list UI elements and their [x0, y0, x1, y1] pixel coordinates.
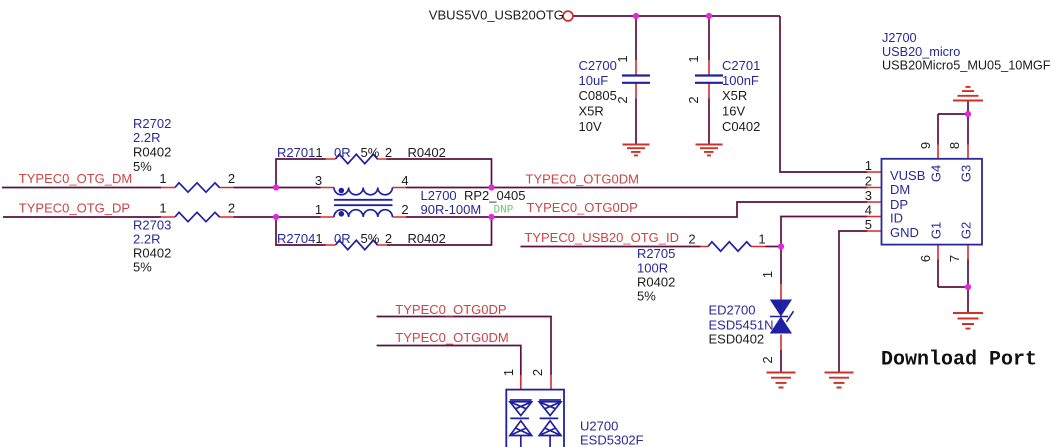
pin stubs U2700: [521, 375, 551, 390]
svg-text:0R: 0R: [334, 145, 351, 160]
svg-text:3: 3: [315, 173, 322, 188]
svg-text:TYPEC0_OTG_DM: TYPEC0_OTG_DM: [19, 171, 132, 186]
svg-text:5%: 5%: [637, 289, 656, 304]
resistor R2701: [336, 154, 378, 163]
pin stubs ED2700: [780, 284, 782, 350]
svg-text:1: 1: [159, 171, 166, 186]
wire J2700 pin6 down: [937, 260, 939, 288]
svg-text:2: 2: [530, 369, 545, 376]
J2700 pin names: [890, 168, 925, 240]
svg-text:R2702: R2702: [133, 116, 171, 131]
wire R2701 loop right: [387, 159, 492, 188]
label L2700: [421, 188, 526, 217]
power port circle VBUS5V0_USB20OTG: [563, 11, 573, 21]
wire C2701 bottom: [708, 99, 710, 145]
connector J2700 box: [882, 159, 983, 245]
junction J2700 top: [965, 111, 971, 117]
J2700 pin numbers: [865, 142, 962, 262]
junction DP right: [488, 214, 494, 220]
label R2701: [277, 145, 446, 160]
svg-text:R0402: R0402: [133, 246, 171, 261]
label J2700: [882, 31, 1051, 73]
svg-text:2: 2: [401, 202, 408, 217]
svg-text:VBUS5V0_USB20OTG: VBUS5V0_USB20OTG: [429, 8, 564, 23]
svg-text:90R-100M: 90R-100M: [421, 202, 482, 217]
wire GND pin5: [839, 231, 868, 373]
svg-text:X5R: X5R: [722, 88, 747, 103]
junction VBUS/C2700: [633, 13, 639, 19]
label R2702: [133, 116, 235, 186]
ground GND pin5: [825, 373, 854, 388]
svg-text:U2700: U2700: [580, 419, 618, 434]
wire ED2700 to ground: [780, 350, 782, 373]
svg-text:1: 1: [501, 369, 516, 376]
svg-text:2: 2: [760, 356, 775, 363]
pin stubs L2700 bottom: [321, 216, 407, 218]
ground C2701: [696, 145, 723, 156]
U2700 channel 1 diodes: [510, 400, 532, 447]
label L2700 pins: [315, 173, 409, 217]
svg-text:1: 1: [615, 55, 630, 62]
svg-text:1: 1: [315, 231, 322, 246]
svg-text:G1: G1: [929, 222, 944, 239]
wire bottom tie: [938, 286, 968, 288]
junction ID/ED2700: [778, 243, 784, 249]
wire bottom ground stem: [967, 287, 969, 313]
svg-text:RP2_0405: RP2_0405: [464, 188, 525, 203]
svg-text:8: 8: [947, 142, 962, 149]
svg-text:X5R: X5R: [579, 104, 604, 119]
svg-text:1: 1: [315, 145, 322, 160]
pin stubs J2700 top pins 9,8: [938, 145, 968, 159]
pin stubs R2702: [161, 187, 234, 189]
inductor L2700 top winding: [334, 188, 392, 195]
resistor R2705: [708, 242, 751, 251]
svg-text:2: 2: [385, 231, 392, 246]
inductor L2700 top dot: [339, 188, 345, 194]
capacitor C2701 plates: [695, 76, 723, 83]
label C2700: [579, 55, 630, 134]
junction DM left: [273, 184, 279, 190]
wire junction to ED2700: [780, 247, 782, 285]
svg-text:10V: 10V: [579, 119, 602, 134]
svg-text:R0402: R0402: [408, 231, 446, 246]
svg-text:2: 2: [228, 171, 235, 186]
wire C2701 top: [708, 16, 710, 60]
svg-text:C0805: C0805: [579, 88, 617, 103]
svg-text:TYPEC0_OTG0DP: TYPEC0_OTG0DP: [395, 302, 506, 317]
wire TYPEC0_OTG0DM to U2700 pin1: [377, 346, 521, 376]
svg-text:1: 1: [865, 158, 872, 173]
ground ED2700: [767, 373, 796, 388]
svg-text:2.2R: 2.2R: [133, 130, 160, 145]
svg-text:2.2R: 2.2R: [133, 232, 160, 247]
wire R2705 to junction: [766, 246, 782, 248]
pin stubs R2703: [161, 216, 234, 218]
svg-text:USB20_micro: USB20_micro: [882, 45, 960, 59]
wire VBUS rail: [573, 15, 780, 17]
wire J2700 pin8 up: [967, 114, 969, 145]
svg-text:0R: 0R: [334, 231, 351, 246]
svg-text:ID: ID: [890, 211, 903, 226]
junction VBUS/C2701: [706, 13, 712, 19]
svg-text:R0402: R0402: [637, 275, 675, 290]
label U2700: [501, 369, 644, 447]
ground J2700 bottom: [953, 313, 983, 329]
svg-text:7: 7: [947, 255, 962, 262]
svg-text:100R: 100R: [637, 261, 668, 276]
svg-text:R0402: R0402: [408, 145, 446, 160]
label R2703: [133, 201, 235, 275]
wire R2704 loop right: [387, 217, 492, 245]
wire R2701 loop left: [276, 159, 326, 188]
wire J2700 pin9 up: [937, 114, 939, 145]
svg-text:R2703: R2703: [133, 218, 171, 233]
svg-text:2: 2: [615, 96, 630, 103]
inductor L2700 bottom winding: [334, 210, 392, 217]
svg-text:2: 2: [686, 96, 701, 103]
diode ED2700 (bidirectional TVS): [770, 300, 794, 334]
inductor L2700 separator lines: [334, 200, 393, 205]
svg-text:ESD5451N: ESD5451N: [709, 318, 774, 333]
svg-text:6: 6: [918, 255, 933, 262]
wire C2700 top: [635, 16, 637, 60]
wire TYPEC0_USB20_OTG_ID: [521, 246, 701, 248]
svg-text:4: 4: [401, 173, 408, 188]
resistor R2703: [175, 212, 220, 221]
svg-text:R0402: R0402: [133, 145, 171, 160]
wire VBUS drop to pin1: [780, 16, 868, 172]
svg-text:10uF: 10uF: [579, 73, 609, 88]
svg-text:5%: 5%: [361, 145, 380, 160]
pin stubs J2700 left pins 1-5: [867, 172, 882, 231]
svg-text:4: 4: [865, 203, 872, 218]
pin stubs L2700 top: [321, 187, 407, 189]
wire DM between R2702 and choke: [234, 187, 321, 189]
pin stubs C2700: [635, 60, 637, 99]
svg-text:TYPEC0_USB20_OTG_ID: TYPEC0_USB20_OTG_ID: [524, 230, 679, 245]
svg-text:ESD0402: ESD0402: [709, 332, 765, 347]
svg-text:2: 2: [385, 145, 392, 160]
wire C2700 bottom: [635, 99, 637, 145]
label R2705: [637, 232, 766, 304]
svg-text:16V: 16V: [722, 104, 745, 119]
svg-text:VUSB: VUSB: [890, 168, 925, 183]
svg-text:5%: 5%: [133, 159, 152, 174]
svg-text:TYPEC0_OTG_DP: TYPEC0_OTG_DP: [19, 201, 130, 216]
wire TYPEC0_OTG_DP left: [3, 216, 161, 218]
svg-text:1: 1: [758, 232, 765, 247]
capacitor C2700 plates: [622, 76, 650, 83]
svg-text:TYPEC0_OTG0DM: TYPEC0_OTG0DM: [395, 330, 508, 345]
resistor R2702: [175, 183, 220, 192]
svg-text:G3: G3: [959, 165, 974, 182]
label R2704: [277, 231, 446, 246]
svg-text:R2701: R2701: [277, 145, 315, 160]
svg-text:C0402: C0402: [722, 119, 760, 134]
svg-text:C2701: C2701: [722, 58, 760, 73]
label C2701: [686, 55, 760, 134]
wire top tie: [938, 113, 968, 115]
svg-text:ESD5302F: ESD5302F: [580, 433, 644, 447]
J2700 G labels: [929, 165, 974, 239]
label ED2700: [709, 271, 776, 364]
svg-text:L2700: L2700: [421, 188, 457, 203]
pin stubs J2700 bottom pins 6,7: [938, 245, 968, 260]
svg-text:R2704: R2704: [277, 231, 315, 246]
ground C2700: [623, 145, 650, 156]
IC U2700 box: [506, 390, 564, 447]
svg-text:1: 1: [686, 55, 701, 62]
svg-text:5%: 5%: [361, 231, 380, 246]
resistor R2704: [336, 240, 378, 249]
wire TYPEC0_OTG0DP choke to jog: [406, 202, 868, 217]
svg-text:ED2700: ED2700: [709, 303, 756, 318]
wire DP between R2703 and choke: [234, 216, 321, 218]
wire R2704 loop left: [276, 217, 326, 245]
pin stubs C2701: [708, 60, 710, 99]
wire TYPEC0_OTG0DP to U2700 pin2: [377, 317, 551, 376]
PIN STUBS (red): [161, 60, 968, 390]
pin stubs R2705: [701, 246, 766, 248]
wire top ground stem: [967, 101, 969, 115]
svg-text:DNP: DNP: [494, 205, 514, 217]
svg-text:J2700: J2700: [882, 31, 917, 45]
svg-text:GND: GND: [890, 225, 919, 240]
pin stubs R2701: [326, 158, 387, 160]
junction J2700 bottom: [965, 284, 971, 290]
svg-text:3: 3: [865, 188, 872, 203]
svg-text:2: 2: [865, 174, 872, 189]
svg-text:5%: 5%: [133, 260, 152, 275]
svg-text:2: 2: [228, 201, 235, 216]
pin stubs R2704: [326, 244, 388, 246]
svg-text:G4: G4: [929, 165, 944, 182]
svg-text:R2705: R2705: [637, 246, 675, 261]
wire J2700 pin7 down: [967, 260, 969, 288]
ground J2700 top (inverted): [953, 87, 983, 101]
svg-text:1: 1: [159, 201, 166, 216]
svg-text:TYPEC0_OTG0DP: TYPEC0_OTG0DP: [527, 200, 638, 215]
svg-text:TYPEC0_OTG0DM: TYPEC0_OTG0DM: [526, 172, 639, 187]
wire TYPEC0_OTG0DM choke to J2700 pin2: [406, 187, 868, 189]
svg-text:9: 9: [918, 142, 933, 149]
svg-text:C2700: C2700: [579, 58, 617, 73]
svg-text:2: 2: [688, 232, 695, 247]
svg-text:DM: DM: [890, 182, 910, 197]
U2700 channel 2 diodes: [539, 400, 561, 447]
svg-text:G2: G2: [959, 222, 974, 239]
svg-text:1: 1: [315, 202, 322, 217]
junction DP left: [273, 214, 279, 220]
wire ID riser to pin4: [781, 217, 868, 247]
svg-text:USB20Micro5_MU05_10MGF: USB20Micro5_MU05_10MGF: [882, 59, 1051, 73]
svg-text:Download Port: Download Port: [881, 349, 1037, 372]
svg-text:5: 5: [865, 217, 872, 232]
inductor L2700 bottom dot: [339, 211, 345, 217]
wire TYPEC0_OTG_DM left: [2, 187, 161, 189]
junction DM right: [488, 184, 494, 190]
svg-text:100nF: 100nF: [722, 73, 759, 88]
svg-text:1: 1: [760, 271, 775, 278]
